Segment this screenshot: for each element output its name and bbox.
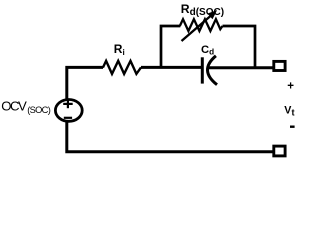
svg-text:Cd: Cd — [201, 44, 214, 57]
voltage source OCV — [55, 100, 82, 122]
wire capacitor to positive terminal — [209, 66, 274, 69]
svg-text:Ri: Ri — [114, 42, 125, 57]
svg-text:Rd(SOC): Rd(SOC) — [181, 2, 224, 18]
arrow of variable resistor Rd — [182, 11, 217, 41]
wire Ri to capacitor through node A — [141, 66, 203, 69]
label minus — [290, 125, 295, 127]
svg-text:Vt: Vt — [284, 105, 294, 118]
wire source bottom and bottom rail — [67, 122, 273, 152]
wire from source top up and right to Ri — [67, 67, 103, 99]
svg-text:+: + — [287, 81, 294, 93]
capacitor Cd — [202, 56, 217, 85]
resistor Ri — [103, 61, 141, 74]
svg-text:OCV: OCV — [1, 99, 27, 114]
wire loop left vertical — [161, 26, 180, 67]
terminal positive square — [274, 61, 285, 70]
wire loop top right and right vertical — [223, 26, 256, 67]
svg-text:(SOC): (SOC) — [27, 105, 51, 115]
label OCV(SOC) — [1, 99, 51, 115]
terminal negative square — [274, 146, 285, 156]
resistor Rd variable zigzag — [180, 19, 223, 31]
